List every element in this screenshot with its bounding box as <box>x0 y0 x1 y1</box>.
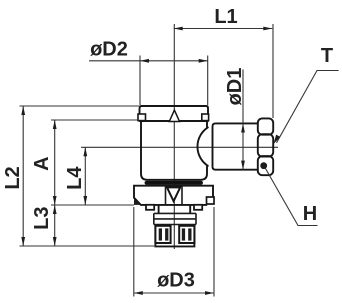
flange right corner block <box>207 197 215 204</box>
dimension L2 <box>2 106 156 246</box>
vertical centerline <box>173 24 175 249</box>
dimension øD2 <box>89 39 208 106</box>
flange face panel lines <box>166 186 183 205</box>
threaded stud outline <box>155 226 194 247</box>
horizontal centerline <box>81 146 278 148</box>
stud washer tab left <box>146 205 154 210</box>
sealant bars right <box>182 228 192 240</box>
release clip right <box>202 114 209 121</box>
svg-text:L3: L3 <box>31 207 53 230</box>
flow direction arrow on cap <box>169 110 179 121</box>
cap outline (top push-in collar) <box>140 106 209 121</box>
body (vertical barrel) <box>141 121 207 180</box>
hex nut band bottom <box>258 156 273 175</box>
dimension L4 <box>64 147 87 205</box>
label H with leader <box>260 162 317 225</box>
orientation triangle on flange <box>167 187 180 201</box>
sealant window left <box>155 226 170 243</box>
dimension øD3 <box>134 207 214 297</box>
svg-text:øD2: øD2 <box>90 39 128 61</box>
label T with leader <box>273 45 338 144</box>
stud washer tab right <box>194 205 202 210</box>
thread ring lines <box>154 213 196 224</box>
dimension øD1 <box>224 68 246 170</box>
svg-text:øD3: øD3 <box>157 270 195 292</box>
svg-text:T: T <box>321 45 333 67</box>
dimension L3 <box>31 205 57 246</box>
svg-text:L2: L2 <box>2 166 24 189</box>
sealant window right <box>179 226 194 243</box>
svg-text:H: H <box>303 203 317 225</box>
hex nut band top <box>258 118 273 134</box>
flange corner notch (filled) <box>134 198 140 205</box>
svg-text:L4: L4 <box>64 166 86 190</box>
elbow ball <box>197 127 207 165</box>
svg-text:øD1: øD1 <box>224 68 246 106</box>
hex nut band middle <box>258 134 273 156</box>
dimension A <box>31 120 138 205</box>
sealant bars left <box>159 228 169 240</box>
stud neck <box>159 205 191 213</box>
svg-text:L1: L1 <box>214 6 237 28</box>
release clip left <box>138 114 146 121</box>
dimension L1 <box>174 6 273 118</box>
svg-text:A: A <box>31 156 53 170</box>
collar seal band (black) <box>145 181 204 185</box>
flange (round base) <box>134 186 213 205</box>
horizontal cylinder <box>213 123 258 169</box>
